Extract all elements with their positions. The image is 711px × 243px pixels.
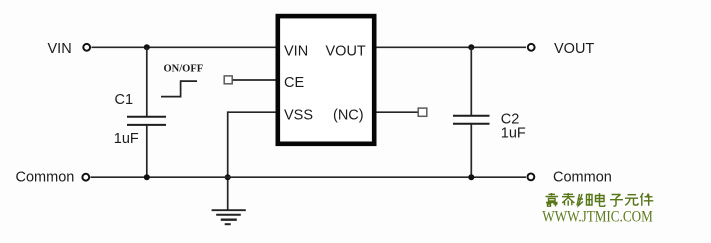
label C1 — [115, 92, 134, 108]
wire VOUT rail — [376, 46, 526, 48]
wire VIN rail — [92, 46, 276, 48]
node VIN input label — [48, 41, 72, 57]
svg-text:VOUT: VOUT — [554, 41, 594, 57]
junction VIN/C1 — [144, 44, 150, 50]
svg-text:Common: Common — [16, 170, 75, 186]
ground symbol — [212, 210, 246, 224]
node Common left label — [16, 170, 75, 186]
wire NC stub — [376, 111, 418, 113]
svg-text:VIN: VIN — [284, 44, 308, 60]
pin label VIN (U1) — [284, 44, 308, 60]
CE input square pad — [224, 76, 232, 84]
pin label VOUT (U1) — [326, 44, 366, 60]
pin label VSS (U1) — [284, 108, 313, 124]
char tai — [562, 193, 575, 206]
char jia — [546, 193, 559, 206]
svg-text:(NC): (NC) — [333, 108, 364, 124]
svg-text:C1: C1 — [115, 92, 134, 108]
wire CE — [233, 79, 276, 81]
svg-text:VSS: VSS — [284, 108, 313, 124]
label ON/OFF — [164, 64, 204, 75]
node Common right label — [553, 169, 612, 185]
svg-text:Common: Common — [553, 169, 612, 185]
value 1uF (C2) — [501, 125, 526, 141]
svg-text:VOUT: VOUT — [326, 44, 366, 60]
terminal VIN (open circle) — [83, 44, 90, 51]
terminal VOUT (open circle) — [528, 44, 535, 51]
char zi — [610, 195, 623, 207]
svg-text:VIN: VIN — [48, 41, 72, 57]
terminal Common left (open circle) — [82, 174, 89, 181]
watermark chinese characters — [546, 193, 654, 206]
char mu — [577, 194, 592, 206]
step waveform symbol (ON/OFF control) — [161, 80, 197, 97]
NC square pad — [418, 108, 427, 116]
svg-text:1uF: 1uF — [501, 125, 526, 141]
wire C2 bottom — [470, 124, 472, 177]
label C2 — [501, 111, 520, 127]
wire VSS horizontal — [228, 111, 276, 113]
pin label (NC) (U1) — [333, 108, 364, 124]
char jian — [641, 193, 654, 206]
wire C2 top — [470, 47, 472, 115]
pin label CE (U1) — [284, 75, 304, 91]
terminal Common right (open circle) — [528, 174, 535, 181]
junction C1/Common — [144, 174, 150, 180]
svg-text:1uF: 1uF — [114, 131, 139, 147]
svg-text:WWW.JTMIC.COM: WWW.JTMIC.COM — [542, 208, 653, 226]
junction VSS/Common — [225, 174, 231, 180]
wire Common rail — [91, 176, 527, 178]
wire C1 bottom — [146, 126, 148, 178]
junction VOUT/C2 — [468, 44, 474, 50]
char yuan — [625, 195, 638, 206]
capacitor C2 — [453, 116, 490, 124]
capacitor C1 — [127, 117, 166, 125]
op IC regulator U1 body — [278, 16, 374, 144]
watermark WWW.JTMIC.COM — [542, 208, 653, 226]
junction C2/Common — [468, 174, 474, 180]
wire C1 top — [146, 47, 148, 116]
char dian — [596, 193, 605, 206]
svg-text:CE: CE — [284, 75, 304, 91]
wire VSS vertical to ground — [227, 111, 229, 210]
node VOUT output label — [554, 41, 594, 57]
value 1uF (C1) — [114, 131, 139, 147]
svg-text:ON/OFF: ON/OFF — [164, 64, 204, 75]
